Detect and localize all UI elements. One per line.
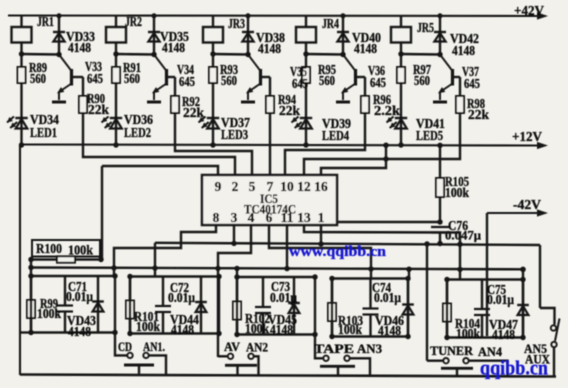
svg-text:22k: 22k [468,107,489,122]
svg-text:qqibb.cn: qqibb.cn [480,359,548,380]
svg-text:TUNER: TUNER [430,343,474,358]
svg-text:0.01μ: 0.01μ [374,290,401,305]
svg-text:645: 645 [370,75,386,90]
svg-text:+12V: +12V [512,129,542,144]
svg-text:LED4: LED4 [322,128,349,143]
svg-text:560: 560 [319,73,335,88]
svg-text:9: 9 [215,179,222,194]
svg-text:100k: 100k [245,321,270,336]
svg-text:100k: 100k [136,319,161,334]
svg-text:560: 560 [221,73,237,88]
svg-text:www.qqibb.cn: www.qqibb.cn [289,244,387,260]
svg-text:8: 8 [213,210,220,225]
svg-text:LED5: LED5 [416,128,443,143]
svg-text:AN1.: AN1. [143,339,165,354]
svg-text:12: 12 [297,179,311,194]
svg-text:LED2: LED2 [124,125,151,140]
svg-text:AN2: AN2 [246,340,268,355]
svg-text:4148: 4148 [452,43,475,58]
svg-text:4148: 4148 [270,322,293,337]
svg-text:2.2k: 2.2k [374,103,400,118]
svg-text:TAPE: TAPE [314,341,354,356]
svg-text:LED3: LED3 [221,127,248,142]
svg-text:0.01μ: 0.01μ [270,290,297,305]
svg-text:R100: R100 [36,242,62,257]
svg-text:4148: 4148 [162,40,185,55]
svg-text:4148: 4148 [171,322,194,337]
svg-text:0.01μ: 0.01μ [66,289,93,304]
svg-text:+42V: +42V [514,3,544,18]
svg-text:560: 560 [30,71,46,86]
svg-text:645: 645 [179,74,195,89]
svg-text:JR4: JR4 [322,16,339,31]
svg-text:22k: 22k [88,102,109,117]
svg-text:-42V: -42V [513,197,541,212]
svg-text:4148: 4148 [354,41,377,56]
svg-text:LED1: LED1 [30,125,57,140]
svg-text:645: 645 [292,76,308,91]
svg-text:AN4: AN4 [478,344,502,359]
svg-text:4148: 4148 [492,327,515,342]
svg-text:560: 560 [414,73,430,88]
svg-text:3: 3 [231,210,238,225]
svg-text:13: 13 [297,210,311,225]
svg-text:JR3: JR3 [228,16,245,31]
svg-text:0.01μ: 0.01μ [487,292,514,307]
svg-text:560: 560 [124,71,140,86]
svg-text:4148: 4148 [258,41,281,56]
svg-text:AN3: AN3 [357,341,382,356]
svg-text:10: 10 [280,179,294,194]
svg-text:100k: 100k [338,322,363,337]
svg-text:100k: 100k [456,326,481,341]
svg-text:4148: 4148 [68,40,91,55]
svg-text:0.01μ: 0.01μ [168,290,195,305]
svg-text:645: 645 [87,71,103,86]
svg-text:22k: 22k [279,103,300,118]
svg-text:0.047μ: 0.047μ [445,228,482,243]
svg-text:TC40174C: TC40174C [244,203,296,217]
svg-text:22k: 22k [183,105,204,120]
svg-text:16: 16 [314,179,328,194]
svg-text:2: 2 [232,179,239,194]
svg-text:AV: AV [224,339,241,354]
svg-text:5: 5 [249,179,256,194]
svg-text:4148: 4148 [378,323,401,338]
svg-text:JR1: JR1 [37,14,54,29]
svg-text:JR2: JR2 [125,14,142,29]
svg-text:100k: 100k [445,185,469,200]
svg-text:JR5: JR5 [417,20,434,35]
svg-text:100k: 100k [37,306,62,321]
svg-text:645: 645 [464,76,480,91]
svg-text:1: 1 [318,210,325,225]
svg-text:CD: CD [118,339,132,354]
svg-text:4148: 4148 [68,324,91,339]
